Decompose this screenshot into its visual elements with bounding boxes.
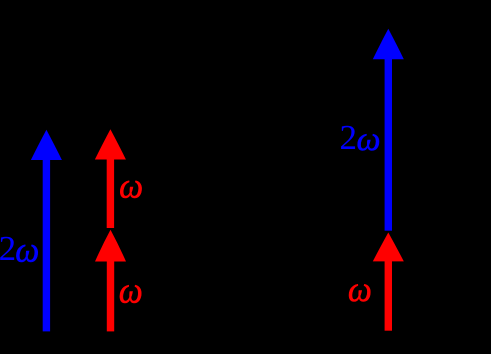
svg-text:ω: ω: [119, 166, 143, 206]
svg-text:2: 2: [0, 229, 16, 268]
arrow blue right (2-omega emitted photon): [373, 29, 404, 231]
arrow red upper-left (omega photon): [95, 129, 126, 228]
svg-text:ω: ω: [15, 230, 39, 270]
arrow blue left (2-omega up-transition): [31, 130, 62, 332]
svg-text:2: 2: [339, 118, 357, 157]
svg-text:ω: ω: [348, 269, 372, 309]
arrow red lower-left (omega photon): [95, 230, 126, 332]
arrow red right (omega photon absorbed): [373, 233, 404, 331]
svg-text:ω: ω: [119, 269, 143, 311]
label 2omega left (blue): [0, 229, 39, 270]
svg-text:ω: ω: [357, 121, 381, 158]
label 2omega right (blue): [339, 118, 380, 158]
